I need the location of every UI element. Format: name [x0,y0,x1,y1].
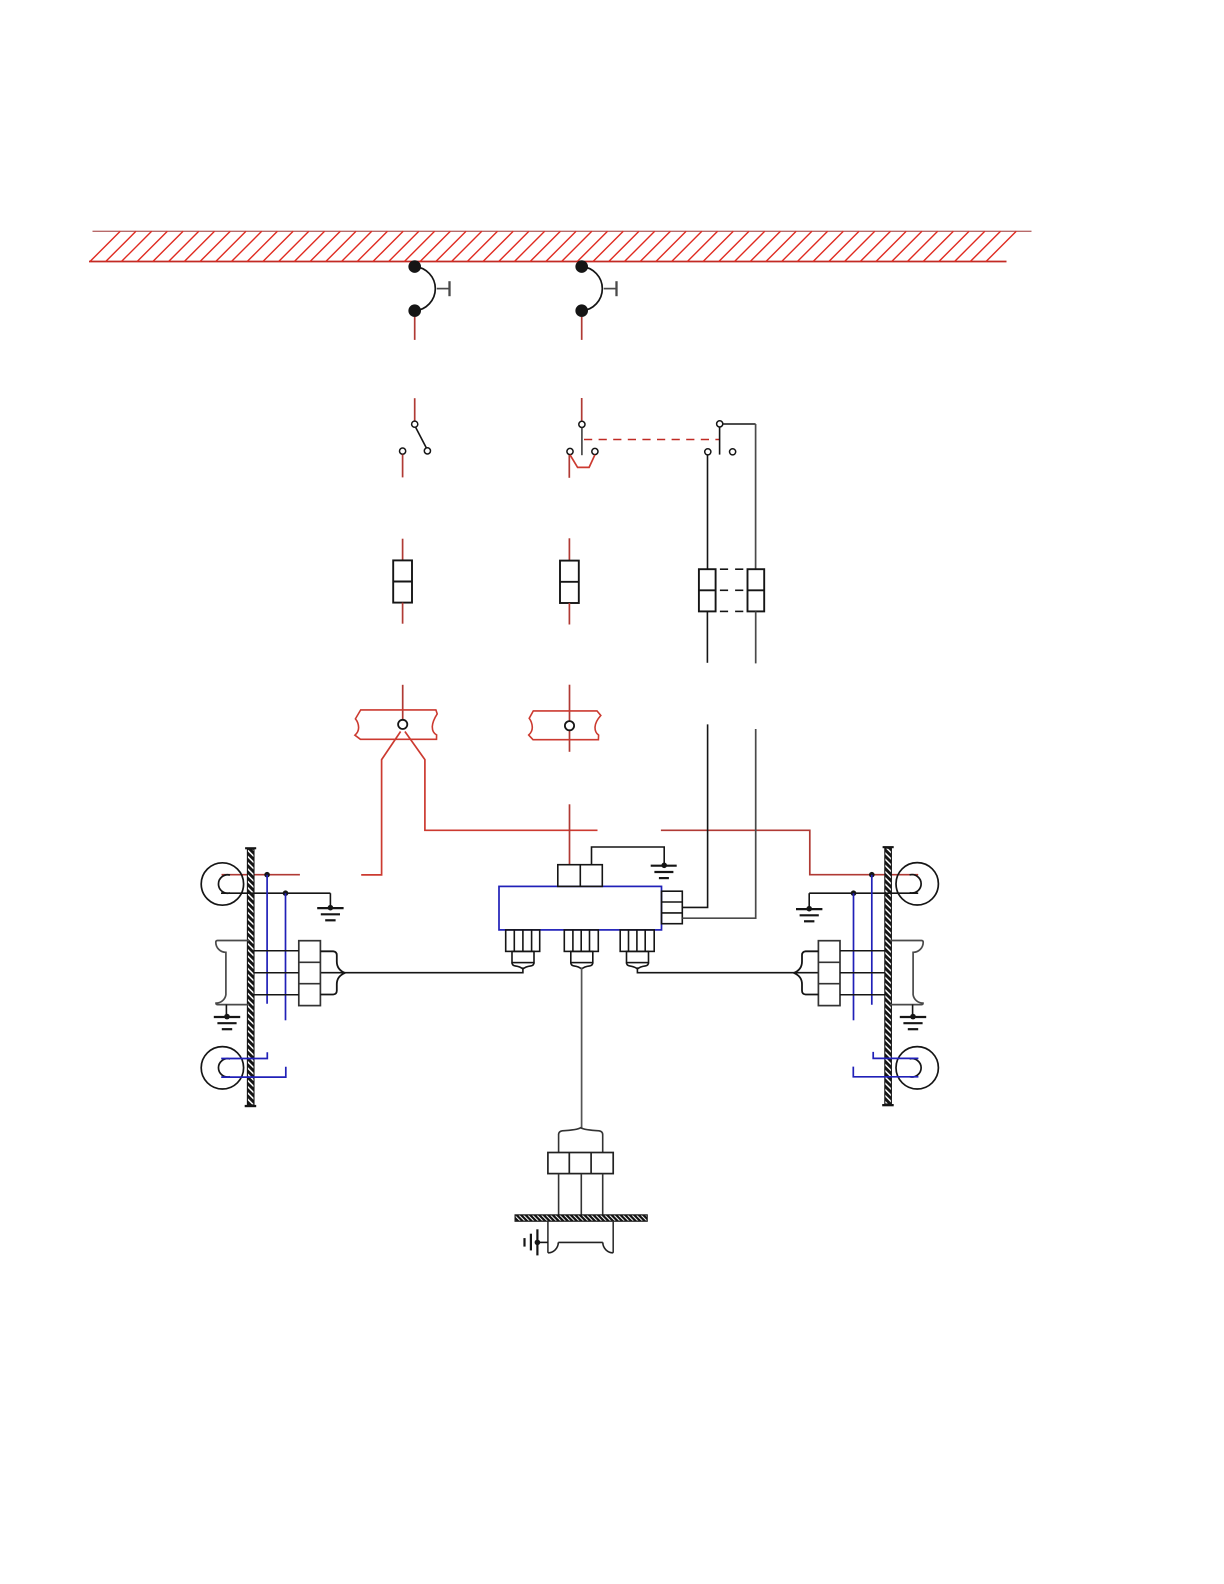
transformer tap connector [662,891,683,924]
right ground on return [796,893,822,921]
bottom device lower wires [559,1174,603,1215]
left wheel top [201,863,243,905]
wire left wheel tail [222,874,300,876]
fuse F2 [560,538,579,624]
transformer T1 tank [499,886,662,930]
changeover switch Q2 [567,398,598,478]
bottom device mount [548,1221,613,1253]
left wheel top black return [221,890,330,896]
catenary busbar hatched band [89,231,1032,261]
cable flag left [355,710,437,739]
left brace [320,951,345,994]
left ground on return [317,893,343,920]
blue sensing wire right 1 [871,875,873,1005]
wire tap B to fuse F3 right [682,729,755,918]
right wheel bottom [896,1047,938,1089]
right wheel top black return [809,890,918,896]
transformer LV group 2 [564,930,598,969]
bottom device brace [559,1128,603,1135]
ganged fuse pair F3 [699,569,764,663]
transformer LV group 1 [506,930,540,969]
disconnect switch Q1 [400,398,431,477]
left body wall [245,847,257,1107]
right bracket [890,941,923,1005]
pantograph P1 [408,260,449,340]
wire LV group 2 to bottom device [581,967,583,1128]
blue sensing wire left 1 [266,875,268,1004]
blue sensing wire right 2 [853,893,855,1020]
left bracket [216,941,249,1005]
right wheel top [896,863,938,905]
wire LV group 3 to right contact box [637,967,818,972]
right contact box [818,941,840,1006]
bottom device upper wires [559,1134,603,1152]
chassis ground sideways [525,1229,548,1255]
left contact box [299,941,321,1006]
wire LV group 1 to left contact box [320,967,523,972]
pantograph P2 [575,260,616,340]
left wheel bottom [201,1047,243,1089]
wire fuse F1 to flag left [402,685,404,720]
blue sensing wire left 2 [285,893,287,1020]
wire feeder to right wheel [661,830,918,874]
wire fuse F2 to flag right [569,685,571,752]
junction dot right feeder [869,872,875,878]
transformer case ground [592,847,677,878]
right wheel bottom blue leads [853,1052,918,1077]
right bracket ground [900,1005,926,1030]
transformer HV bushing [558,865,603,887]
interlock dashed link [584,439,720,441]
fuse F1 [393,539,412,624]
wire flag right to HV bushing [569,804,571,864]
transformer LV group 3 [620,930,654,969]
interlocked switch Q3 [705,421,756,569]
junction dot left feeder [264,872,270,878]
wire flag left branch B [405,732,598,831]
bottom device boxes [548,1153,613,1174]
wire tap A to fuse F3 left [682,724,707,907]
right brace [794,951,819,994]
right contact lines [840,951,885,995]
right body wall [882,846,894,1106]
wire flag left branch A [361,732,400,875]
floor hatched bar [515,1215,647,1221]
cable flag right [529,711,601,740]
left wheel bottom blue leads [221,1052,286,1077]
left bracket ground [214,1005,240,1030]
left contact lines [254,951,299,995]
